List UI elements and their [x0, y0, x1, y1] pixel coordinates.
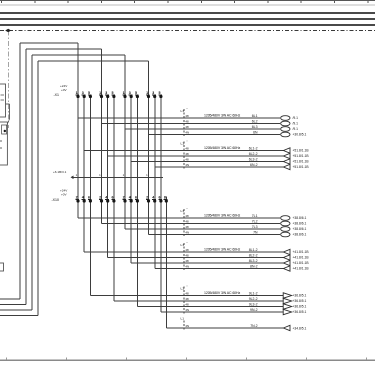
svg-text:L1: L1: [181, 109, 185, 113]
svg-text:*: *: [187, 207, 188, 211]
svg-text:6L2: 6L2: [252, 120, 258, 124]
svg-text:*: *: [187, 139, 188, 143]
svg-text:6: 6: [88, 196, 90, 200]
svg-text:L1: L1: [181, 317, 185, 321]
svg-text:+51.8/1.1B: +51.8/1.1B: [293, 149, 310, 153]
svg-text:2: 2: [123, 196, 125, 200]
svg-text:L1: L1: [181, 141, 185, 145]
svg-text:4: 4: [152, 196, 154, 200]
svg-text:5: 5: [112, 91, 114, 95]
svg-text:+51.8/1.1B: +51.8/1.1B: [293, 165, 310, 169]
svg-text:48: 48: [185, 120, 189, 124]
svg-text:+24V: +24V: [60, 84, 68, 88]
svg-text:48: 48: [185, 220, 189, 224]
svg-text:+51.8/1.1B: +51.8/1.1B: [293, 160, 310, 164]
svg-text:1205/480V 3/N AC 60Hz: 1205/480V 3/N AC 60Hz: [204, 291, 240, 295]
svg-text:48: 48: [185, 248, 189, 252]
svg-text:48: 48: [185, 259, 189, 263]
svg-text:6L1: 6L1: [252, 114, 258, 118]
svg-text:6L2-2: 6L2-2: [249, 152, 258, 156]
svg-text:4: 4: [105, 196, 107, 200]
svg-text:48: 48: [185, 303, 189, 307]
svg-text:+36.8/5.1: +36.8/5.1: [293, 310, 307, 314]
svg-text:6: 6: [159, 196, 161, 200]
svg-text:1205/480V 3/N AC 60Hz: 1205/480V 3/N AC 60Hz: [204, 146, 240, 150]
svg-text:8L2-2: 8L2-2: [249, 254, 258, 258]
svg-text:+38.8/6.1: +38.8/6.1: [293, 222, 307, 226]
svg-text:+24V: +24V: [60, 188, 68, 192]
svg-text:L1: L1: [181, 243, 185, 247]
svg-text:48: 48: [185, 297, 189, 301]
svg-text:*: *: [187, 284, 188, 288]
svg-text:6N: 6N: [253, 131, 258, 135]
svg-text:9L3-2: 9L3-2: [249, 303, 258, 307]
svg-text:9L2-2: 9L2-2: [249, 297, 258, 301]
svg-text:6L3-2: 6L3-2: [249, 158, 258, 162]
svg-text:9L1-2: 9L1-2: [249, 292, 258, 296]
svg-text:2: 2: [99, 196, 101, 200]
svg-text:+34.8/5.1: +34.8/5.1: [293, 326, 307, 330]
svg-text:5: 5: [88, 91, 90, 95]
svg-text:*: *: [187, 107, 188, 111]
svg-text:4N: 4N: [185, 265, 189, 269]
svg-text:+30.8/5.1: +30.8/5.1: [293, 133, 307, 137]
svg-text:+0V: +0V: [61, 88, 68, 92]
svg-text:*: *: [187, 241, 188, 245]
svg-text:/9.1: /9.1: [293, 116, 299, 120]
svg-text:+38.8/6.1: +38.8/6.1: [293, 216, 307, 220]
svg-text:1: 1: [123, 91, 125, 95]
svg-text:-X1: -X1: [54, 93, 60, 97]
svg-text:+41.8/1.1B: +41.8/1.1B: [293, 261, 310, 265]
svg-text:/9.1: /9.1: [293, 127, 299, 131]
svg-text:2: 2: [76, 196, 78, 200]
svg-text:3: 3: [129, 91, 131, 95]
svg-text:48: 48: [185, 158, 189, 162]
svg-text:+0V: +0V: [61, 192, 68, 196]
svg-text:1205/480V 3/N AC 60Hz: 1205/480V 3/N AC 60Hz: [204, 247, 240, 251]
svg-text:+6.1B/3.1: +6.1B/3.1: [53, 170, 67, 174]
svg-text:5: 5: [135, 91, 137, 95]
svg-text:6: 6: [112, 196, 114, 200]
svg-text:1205/480V 3/N AC 60Hz: 1205/480V 3/N AC 60Hz: [204, 213, 240, 217]
svg-text:6L3: 6L3: [252, 125, 258, 129]
svg-text:48: 48: [185, 147, 189, 151]
svg-text:-X10: -X10: [52, 198, 59, 202]
svg-text:1: 1: [76, 91, 78, 95]
svg-text:7L3: 7L3: [252, 225, 258, 229]
svg-text:3: 3: [152, 91, 154, 95]
svg-text:4N: 4N: [185, 131, 189, 135]
svg-text:4N: 4N: [185, 163, 189, 167]
svg-text:+41.8/1.1B: +41.8/1.1B: [293, 250, 310, 254]
svg-text:8L1-2: 8L1-2: [249, 248, 258, 252]
svg-text:6N-2: 6N-2: [250, 163, 258, 167]
svg-text:48: 48: [185, 292, 189, 296]
svg-text:48: 48: [185, 152, 189, 156]
svg-text:8N-2: 8N-2: [250, 265, 258, 269]
svg-text:3: 3: [82, 91, 84, 95]
svg-text:L1: L1: [181, 286, 185, 290]
svg-text:48: 48: [185, 225, 189, 229]
svg-text:+36.8/5.1: +36.8/5.1: [293, 294, 307, 298]
svg-text:48: 48: [185, 254, 189, 258]
svg-text:2: 2: [146, 196, 148, 200]
svg-text:+51.8/1.1B: +51.8/1.1B: [293, 154, 310, 158]
svg-text:48: 48: [185, 114, 189, 118]
svg-text:7N: 7N: [253, 231, 258, 235]
svg-text:4N: 4N: [185, 231, 189, 235]
svg-text:6: 6: [135, 196, 137, 200]
svg-text:1: 1: [99, 91, 101, 95]
svg-text:48: 48: [185, 125, 189, 129]
svg-text:+38.8/6.1: +38.8/6.1: [293, 233, 307, 237]
svg-text:9N-2: 9N-2: [250, 308, 258, 312]
svg-text:L1: L1: [181, 209, 185, 213]
svg-text:+41.8/1.1B: +41.8/1.1B: [293, 256, 310, 260]
svg-text:8: 8: [164, 196, 166, 200]
svg-text:+36.8/5.1: +36.8/5.1: [293, 299, 307, 303]
svg-text:6L1-2: 6L1-2: [249, 147, 258, 151]
svg-text:4: 4: [129, 196, 131, 200]
svg-text:5: 5: [159, 91, 161, 95]
svg-text:4N: 4N: [185, 324, 189, 328]
svg-text:+41.8/1.1B: +41.8/1.1B: [293, 267, 310, 271]
svg-text:4: 4: [82, 196, 84, 200]
svg-text:3: 3: [105, 91, 107, 95]
svg-text:7N.2: 7N.2: [250, 324, 257, 328]
svg-text:8L3-2: 8L3-2: [249, 259, 258, 263]
svg-text:1: 1: [146, 91, 148, 95]
svg-text:4N: 4N: [185, 308, 189, 312]
svg-text:48: 48: [185, 214, 189, 218]
svg-text:1205/480V 3/N AC 60Hz: 1205/480V 3/N AC 60Hz: [204, 113, 240, 117]
svg-text:/9.1: /9.1: [293, 122, 299, 126]
svg-text:7L2: 7L2: [252, 220, 258, 224]
svg-text:+36.8/5.1: +36.8/5.1: [293, 305, 307, 309]
svg-text:7L1: 7L1: [252, 214, 258, 218]
svg-text:+38.8/6.1: +38.8/6.1: [293, 227, 307, 231]
